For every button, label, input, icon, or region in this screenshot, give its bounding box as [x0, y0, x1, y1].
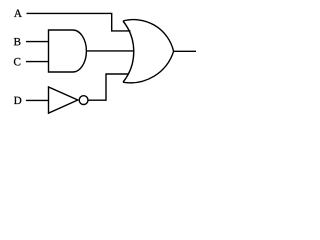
- OR gate U3: [123, 20, 174, 83]
- AND gate U1: [49, 30, 87, 72]
- NOT gate U2 triangle: [49, 87, 78, 113]
- wire B to AND input: [26, 41, 49, 43]
- node C label: [14, 58, 20, 65]
- wire C to AND input: [26, 61, 49, 63]
- wire AND output to OR input 2: [86, 50, 134, 52]
- wire A to OR input 1: [27, 13, 131, 31]
- node D label: [14, 97, 21, 104]
- NOT gate U2 bubble: [79, 96, 88, 105]
- node A label: [14, 10, 22, 17]
- node B label: [14, 38, 21, 45]
- wire NOT output to OR input 3: [88, 74, 128, 100]
- wire OR output: [174, 50, 196, 52]
- wire D to NOT input: [26, 99, 49, 101]
